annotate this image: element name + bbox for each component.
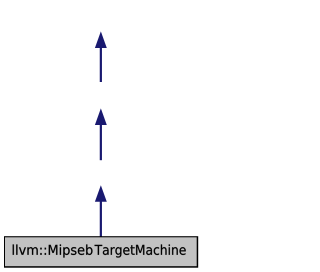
class box llvm::MipsebTargetMachine (border frame): [4, 236, 198, 268]
inheritance arrow 1 (top): [95, 31, 107, 82]
inheritance arrow 3 (bottom): [95, 185, 107, 237]
class name label "llvm::MipsebTargetMachine": [13, 244, 186, 257]
inheritance arrow 2 (middle): [95, 108, 107, 160]
